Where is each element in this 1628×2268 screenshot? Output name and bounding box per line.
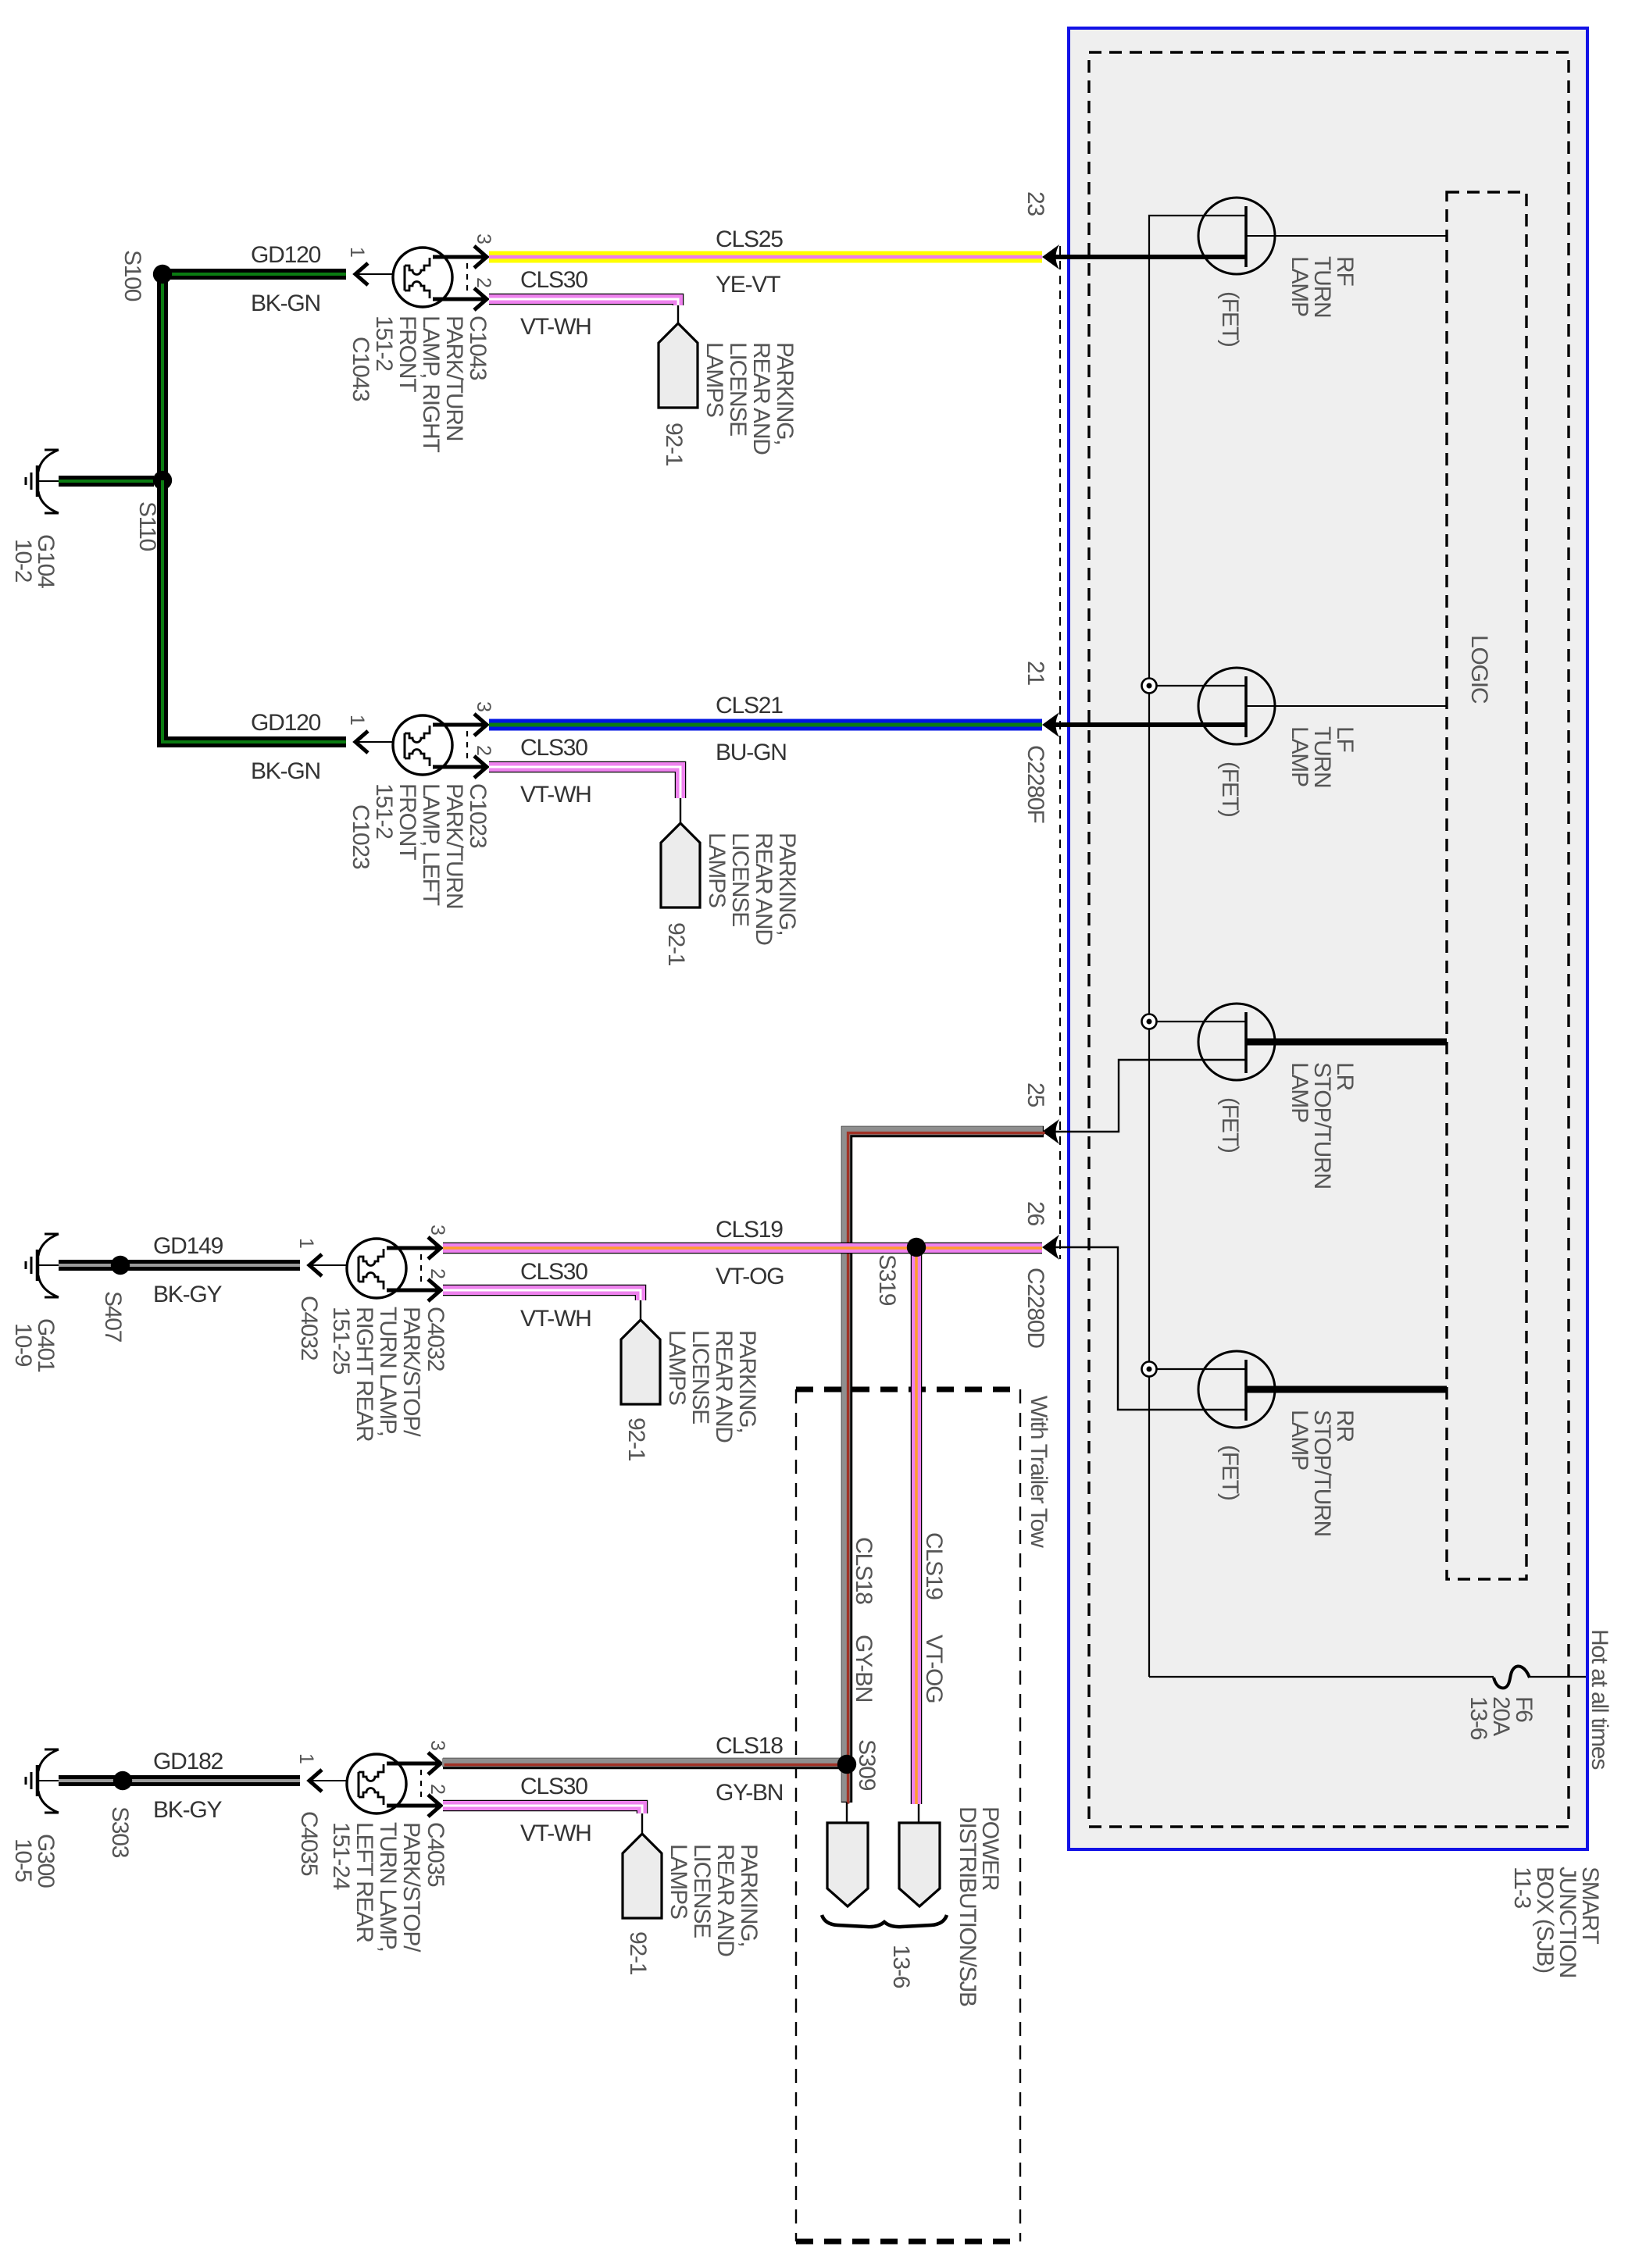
svg-text:11-3: 11-3 (1509, 1867, 1535, 1909)
svg-text:C4032: C4032 (423, 1307, 448, 1371)
svg-text:LAMPS: LAMPS (666, 1844, 691, 1919)
lamp connector pin 1 arrow (309, 1770, 322, 1792)
svg-text:PARKING,: PARKING, (736, 1844, 762, 1947)
SJB pin 25 (1042, 1119, 1059, 1144)
svg-text:LICENSE: LICENSE (689, 1844, 715, 1938)
fuse feed line (1149, 1676, 1494, 1678)
lamp connector pin 2 arrow (474, 756, 487, 778)
wire CLS30 VT-WH row1 (489, 299, 678, 305)
svg-text:1: 1 (346, 247, 368, 257)
svg-text:(FET): (FET) (1217, 761, 1243, 817)
svg-text:92-1: 92-1 (625, 1931, 651, 1975)
SJB pin 26 (1042, 1235, 1059, 1260)
CLS18 GY-BN trailer stub (846, 1803, 848, 1823)
svg-text:PARKING,: PARKING, (772, 342, 798, 445)
svg-text:BK-GN: BK-GN (251, 758, 320, 784)
lamp connector pin 3 arrow (474, 714, 487, 736)
SJB pin 23 (1042, 244, 1059, 269)
svg-text:151-25: 151-25 (328, 1307, 354, 1375)
svg-text:PARK/STOP/: PARK/STOP/ (398, 1307, 424, 1437)
svg-text:TURN LAMP,: TURN LAMP, (375, 1307, 401, 1436)
svg-text:CLS21: CLS21 (716, 693, 783, 719)
transistor LF TURN LAMP (FET) (1198, 668, 1275, 744)
svg-text:10-9: 10-9 (10, 1323, 36, 1367)
svg-text:VT-WH: VT-WH (520, 314, 591, 340)
svg-text:CLS30: CLS30 (520, 267, 587, 293)
transistor LR STOP/TURN LAMP (FET) (1198, 1004, 1275, 1080)
svg-text:25: 25 (1023, 1082, 1048, 1107)
wire CLS30 VT-WH row4 (443, 1806, 642, 1813)
off-page arrow PARKING REAR AND LICENSE LAMPS 92-1 row4 (623, 1834, 662, 1918)
brace (822, 1915, 947, 1927)
connector C2280 dashed line (1059, 246, 1061, 1259)
LOGIC dashed box (1447, 192, 1526, 1579)
svg-text:VT-WH: VT-WH (520, 1306, 591, 1332)
svg-text:LEFT REAR: LEFT REAR (352, 1822, 377, 1942)
svg-text:TURN LAMP,: TURN LAMP, (375, 1822, 401, 1952)
rail junction (1142, 679, 1157, 694)
svg-text:BK-GY: BK-GY (153, 1282, 223, 1307)
svg-text:151-2: 151-2 (371, 316, 397, 371)
bulb symbol (347, 1239, 406, 1298)
RR FET drain to pin 26 (1055, 1247, 1246, 1410)
lamp connector pin 3 arrow (428, 1753, 441, 1774)
svg-text:FRONT: FRONT (395, 783, 420, 860)
off-page arrow PARKING REAR AND LICENSE LAMPS 92-1 row1 (659, 323, 698, 408)
off-page arrow to POWER DISTRIBUTION/SJB (left) (827, 1823, 868, 1906)
svg-text:C1023: C1023 (348, 804, 373, 869)
svg-text:2: 2 (473, 277, 494, 287)
svg-text:LAMP, RIGHT: LAMP, RIGHT (418, 316, 444, 452)
svg-text:GD182: GD182 (153, 1749, 223, 1774)
svg-text:13-6: 13-6 (1466, 1696, 1491, 1740)
svg-text:BK-GN: BK-GN (251, 291, 320, 316)
svg-text:LAMP: LAMP (1287, 256, 1312, 316)
svg-text:CLS18: CLS18 (716, 1733, 783, 1759)
svg-text:(FET): (FET) (1217, 1097, 1243, 1153)
lamp connector pin 1 arrow (355, 263, 368, 285)
wire CLS30 VT-WH row3 (443, 1290, 641, 1300)
svg-text:S407: S407 (100, 1291, 126, 1343)
svg-text:S110: S110 (134, 501, 160, 551)
lamp connector pin 2 arrow (428, 1279, 441, 1301)
svg-text:CLS19: CLS19 (921, 1532, 947, 1599)
wire CLS18 GY-BN to splice S309 (443, 1758, 847, 1770)
svg-text:C4032: C4032 (296, 1296, 322, 1360)
svg-text:1: 1 (295, 1753, 317, 1763)
wire CLS19 VT-OG to pin 26 (443, 1243, 1042, 1254)
svg-text:GD120: GD120 (251, 242, 321, 268)
off-page arrow PARKING REAR AND LICENSE LAMPS 92-1 row2 (661, 823, 700, 908)
ground G401 (45, 1233, 59, 1236)
RF FET drain to pin 23 (1055, 255, 1246, 259)
fuse F6 (1494, 1666, 1530, 1688)
svg-text:S100: S100 (120, 250, 145, 301)
svg-text:CLS18: CLS18 (851, 1537, 876, 1604)
svg-text:LOGIC: LOGIC (1466, 635, 1492, 704)
svg-text:(FET): (FET) (1217, 1445, 1243, 1500)
svg-text:FRONT: FRONT (395, 316, 420, 392)
lamp connector pin 2 arrow (474, 288, 487, 310)
svg-text:REAR AND: REAR AND (712, 1844, 738, 1956)
svg-text:VT-OG: VT-OG (716, 1264, 784, 1289)
svg-text:LAMPS: LAMPS (702, 342, 727, 417)
LF FET drain to pin 21 (1055, 722, 1246, 727)
bulb symbol (393, 715, 452, 775)
wire GD120 BK-GN row2 (162, 480, 346, 742)
svg-text:VT-WH: VT-WH (520, 1820, 591, 1846)
svg-text:151-24: 151-24 (328, 1822, 354, 1890)
svg-text:YE-VT: YE-VT (716, 272, 780, 298)
ground G104 (45, 449, 59, 451)
wire CLS18 GY-BN vertical to pin 25 (847, 1132, 1044, 1803)
svg-text:CLS30: CLS30 (520, 735, 587, 761)
rail junction (1142, 1015, 1157, 1029)
splice S100 (153, 265, 172, 283)
supply rail from fuse (1149, 216, 1246, 1677)
bulb symbol (393, 248, 452, 307)
svg-text:LAMP: LAMP (1287, 1410, 1312, 1470)
svg-text:REAR AND: REAR AND (748, 342, 774, 455)
svg-text:S303: S303 (107, 1806, 133, 1858)
svg-text:LICENSE: LICENSE (727, 833, 753, 926)
svg-text:S319: S319 (874, 1254, 900, 1306)
CLS19 VT-OG trailer stub (918, 1804, 919, 1823)
svg-text:LICENSE: LICENSE (687, 1330, 713, 1424)
svg-text:C4035: C4035 (423, 1822, 448, 1887)
svg-text:PARK/STOP/: PARK/STOP/ (398, 1822, 424, 1952)
svg-text:LICENSE: LICENSE (725, 342, 751, 436)
svg-text:RIGHT REAR: RIGHT REAR (352, 1307, 377, 1442)
svg-text:1: 1 (295, 1238, 317, 1248)
svg-text:92-1: 92-1 (661, 423, 687, 466)
svg-text:3: 3 (473, 234, 494, 244)
svg-text:3: 3 (473, 701, 494, 711)
wire CLS30 VT-WH row2 (489, 767, 680, 798)
svg-text:GD149: GD149 (153, 1233, 223, 1259)
svg-text:CLS30: CLS30 (520, 1774, 587, 1799)
wire GD182 BK-GY row4 (59, 1775, 300, 1786)
svg-text:REAR AND: REAR AND (711, 1330, 737, 1442)
svg-text:10-5: 10-5 (10, 1838, 36, 1882)
svg-text:3: 3 (427, 1225, 448, 1235)
svg-text:2: 2 (473, 745, 494, 755)
svg-text:C2280F: C2280F (1023, 745, 1048, 823)
svg-text:CLS30: CLS30 (520, 1259, 587, 1285)
svg-text:With Trailer Tow: With Trailer Tow (1026, 1396, 1051, 1548)
bulb symbol (347, 1754, 406, 1813)
svg-text:C2280D: C2280D (1023, 1268, 1048, 1348)
svg-text:GY-BN: GY-BN (851, 1635, 876, 1702)
wire CLS21 BU-GN to pin 21 (489, 719, 1042, 731)
Smart Junction Box (SJB) outline (1069, 28, 1587, 1849)
svg-text:C1043: C1043 (348, 337, 373, 401)
lamp connector pin 1 arrow (309, 1254, 322, 1276)
wire GD149 BK-GY row3 (59, 1260, 300, 1271)
svg-text:DISTRIBUTION/SJB: DISTRIBUTION/SJB (955, 1806, 980, 2006)
splice S303 (113, 1771, 132, 1790)
svg-text:(FET): (FET) (1217, 291, 1243, 347)
With Trailer Tow dashed box (796, 1387, 1020, 1393)
svg-text:2: 2 (427, 1784, 448, 1794)
svg-text:C1043: C1043 (465, 316, 491, 380)
SJB internal dashed box (1089, 52, 1569, 1827)
splice S110 (153, 471, 172, 490)
svg-text:13-6: 13-6 (888, 1945, 914, 1988)
SJB pin 21 (1042, 712, 1059, 737)
transistor RF TURN LAMP (FET) (1198, 198, 1275, 274)
svg-text:PARKING,: PARKING, (734, 1330, 760, 1433)
svg-text:S309: S309 (854, 1739, 880, 1791)
svg-text:Hot at all times: Hot at all times (1587, 1629, 1612, 1769)
svg-text:PARK/TURN: PARK/TURN (441, 783, 467, 908)
transistor RR STOP/TURN LAMP (FET) (1198, 1351, 1275, 1428)
svg-text:21: 21 (1023, 661, 1048, 685)
svg-text:PARK/TURN: PARK/TURN (441, 316, 467, 440)
svg-text:CLS25: CLS25 (716, 226, 783, 252)
svg-text:LAMP: LAMP (1287, 726, 1312, 786)
svg-text:1: 1 (346, 715, 368, 725)
svg-text:GD120: GD120 (251, 710, 321, 736)
svg-text:GY-BN: GY-BN (716, 1780, 783, 1806)
lamp connector pin 1 arrow (355, 731, 368, 753)
svg-text:BK-GY: BK-GY (153, 1797, 223, 1823)
lamp connector pin 2 arrow (428, 1795, 441, 1817)
svg-text:92-1: 92-1 (623, 1417, 649, 1461)
lamp connector pin 3 arrow (474, 246, 487, 268)
svg-text:92-1: 92-1 (663, 922, 689, 966)
rail junction (1142, 1362, 1157, 1377)
wire CLS19 VT-OG branch down (911, 1247, 923, 1804)
svg-text:CLS19: CLS19 (716, 1217, 783, 1243)
wire GD120 BK-GN ground run row1 (59, 476, 154, 487)
svg-text:2: 2 (427, 1268, 448, 1278)
splice S309 (837, 1755, 856, 1774)
svg-text:3: 3 (427, 1740, 448, 1750)
svg-text:BU-GN: BU-GN (716, 740, 787, 765)
LR FET drain to pin 25 (1055, 1060, 1246, 1132)
svg-text:151-2: 151-2 (371, 783, 397, 839)
svg-text:VT-WH: VT-WH (520, 782, 591, 808)
svg-text:LAMPS: LAMPS (704, 833, 730, 908)
lamp connector pin 3 arrow (428, 1237, 441, 1259)
ground G300 (45, 1749, 59, 1751)
splice S407 (111, 1256, 130, 1275)
off-page arrow to POWER DISTRIBUTION/SJB (right) (899, 1823, 940, 1906)
svg-text:C4035: C4035 (296, 1811, 322, 1876)
svg-text:LAMP: LAMP (1287, 1062, 1312, 1122)
off-page arrow PARKING REAR AND LICENSE LAMPS 92-1 row3 (621, 1320, 660, 1404)
svg-text:LAMP, LEFT: LAMP, LEFT (418, 783, 444, 906)
svg-text:LAMPS: LAMPS (664, 1330, 690, 1405)
svg-text:C1023: C1023 (465, 783, 491, 848)
svg-text:VT-OG: VT-OG (921, 1635, 947, 1703)
svg-text:26: 26 (1023, 1201, 1048, 1225)
svg-text:23: 23 (1023, 191, 1048, 216)
svg-text:PARKING,: PARKING, (774, 833, 800, 936)
wire CLS25 YE-VT to pin 23 (489, 251, 1042, 263)
splice S319 (907, 1238, 926, 1257)
svg-text:REAR AND: REAR AND (751, 833, 777, 945)
svg-text:10-2: 10-2 (10, 539, 36, 583)
